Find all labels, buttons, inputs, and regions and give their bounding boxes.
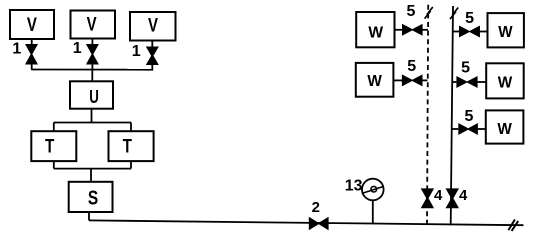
box T1: [31, 131, 76, 161]
wire W1 to valve 5a: [395, 29, 403, 31]
svg-text:U: U: [89, 86, 99, 107]
wire valve 5c to W3: [480, 31, 488, 33]
box W5 (right column bottom): [486, 110, 524, 143]
valve 1a: [25, 44, 38, 65]
svg-text:W: W: [497, 121, 512, 138]
valve 5a: [402, 24, 423, 36]
wire branch header: [54, 122, 131, 124]
valve 4a (on dashed riser): [421, 188, 434, 208]
svg-text:T: T: [123, 135, 132, 157]
valve 4b (on solid riser): [446, 188, 460, 208]
valve 2: [309, 217, 329, 230]
wire solid riser to valve 5c: [453, 31, 459, 33]
box U1: [70, 81, 113, 108]
wire valve 1b to manifold: [91, 62, 93, 70]
wire collector: [54, 168, 131, 170]
wire valve 5d to W4: [478, 81, 487, 83]
wire manifold header: [31, 69, 153, 71]
svg-text:V: V: [148, 15, 158, 36]
wire solid riser: [451, 6, 453, 225]
wire manifold to U: [91, 70, 93, 82]
svg-text:1: 1: [132, 43, 141, 60]
svg-text:V: V: [27, 15, 37, 36]
box W2 (left column bottom): [356, 63, 394, 97]
wire dashed riser: [427, 5, 428, 224]
svg-text:S: S: [88, 187, 98, 209]
box T2: [109, 131, 154, 161]
svg-text:1: 1: [73, 40, 82, 57]
wire T1 to collector: [53, 161, 55, 169]
wire T2 to collector: [130, 161, 132, 169]
valve 5b: [402, 74, 423, 86]
svg-text:W: W: [498, 24, 513, 41]
svg-text:4: 4: [459, 187, 468, 204]
box W4 (right column middle): [486, 63, 524, 98]
wire valve 5a to dashed riser: [422, 29, 428, 31]
svg-text:W: W: [367, 73, 382, 90]
break symbol solid riser top: [450, 8, 458, 20]
svg-text:2: 2: [312, 199, 320, 216]
wire valve 1a to manifold: [31, 62, 33, 70]
wire solid riser to valve 5e: [452, 128, 459, 130]
svg-text:5: 5: [461, 59, 470, 76]
valve 5d: [456, 76, 477, 88]
wire solid riser to valve 5d: [452, 81, 456, 83]
svg-text:1: 1: [12, 41, 21, 58]
wire V1 to valve 1a: [31, 39, 33, 45]
svg-text:5: 5: [407, 3, 416, 20]
wire main bottom line: [89, 220, 524, 225]
wire valve 5b to dashed riser: [422, 79, 428, 81]
break symbol main line right end: [508, 220, 518, 231]
box S1: [69, 182, 113, 212]
svg-text:T: T: [45, 135, 54, 157]
wire W2 to valve 5b: [393, 79, 402, 81]
wire valve 5e to W5: [478, 128, 486, 130]
wire branch to T2: [130, 123, 132, 132]
box W3 (right column top): [488, 13, 524, 47]
box V2: [71, 11, 116, 39]
box V1: [10, 10, 54, 39]
svg-text:W: W: [368, 25, 384, 42]
valve 1b: [86, 44, 99, 65]
gauge G13 squiggle: [362, 186, 383, 193]
svg-text:5: 5: [407, 58, 416, 75]
valve 5c: [459, 26, 480, 38]
wire U to branch: [91, 109, 93, 123]
wire S to main line: [88, 212, 90, 220]
wire collector to S: [90, 169, 92, 182]
gauge G13 circle: [362, 179, 384, 201]
svg-text:4: 4: [434, 187, 443, 204]
valve 1c: [146, 47, 159, 66]
svg-text:5: 5: [465, 10, 474, 27]
box W1 (left column top): [356, 12, 394, 47]
box V3: [130, 12, 176, 41]
wire valve 1c to manifold: [151, 64, 153, 70]
wire gauge stem: [372, 200, 374, 223]
valve 5e: [458, 123, 478, 135]
wire V2 to valve 1b: [91, 39, 93, 46]
break symbol dashed riser top: [425, 7, 433, 19]
svg-text:5: 5: [465, 108, 474, 125]
svg-text:W: W: [498, 74, 513, 91]
svg-text:13: 13: [345, 177, 363, 194]
wire branch to T1: [53, 123, 55, 132]
wire V3 to valve 1c: [151, 41, 153, 48]
svg-text:V: V: [87, 15, 97, 36]
